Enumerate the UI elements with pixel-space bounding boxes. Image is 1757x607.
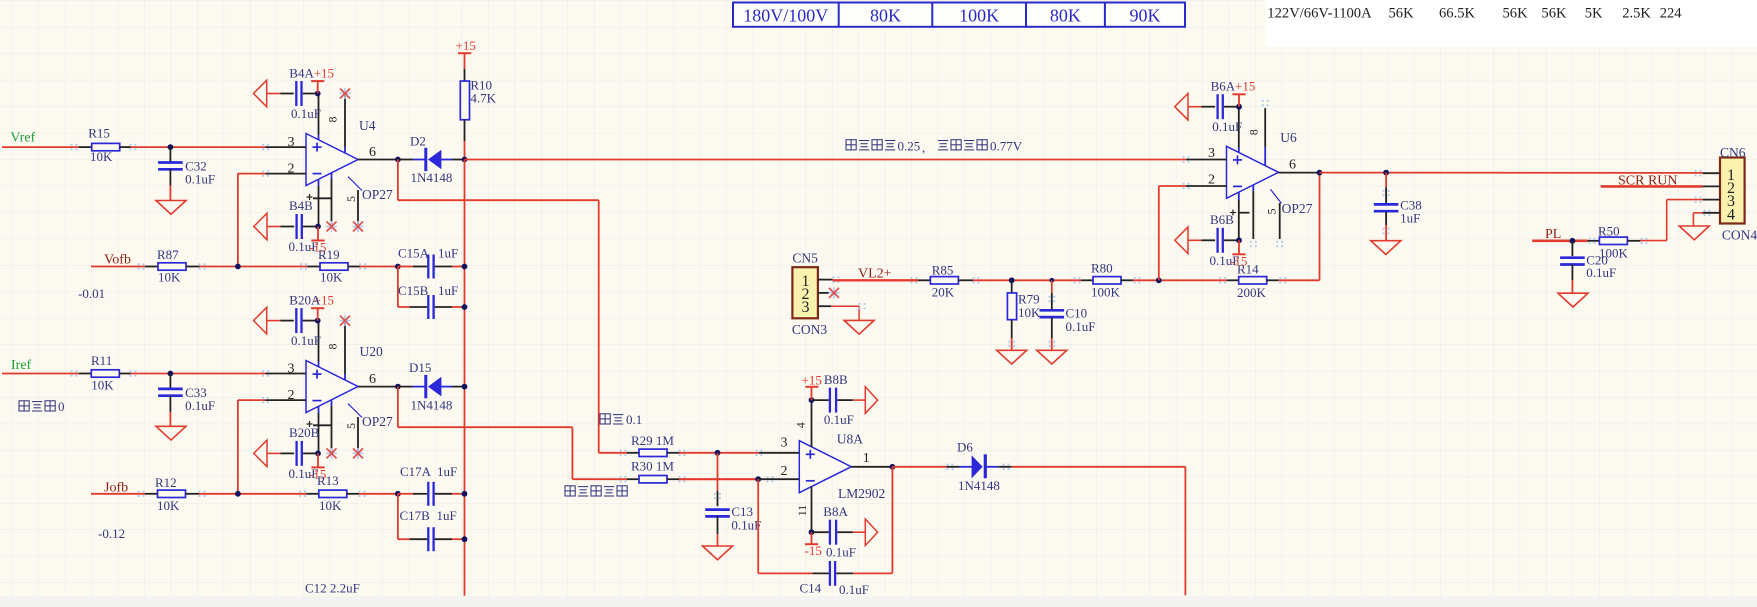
- svg-text:B8A: B8A: [823, 504, 848, 519]
- svg-text:10K: 10K: [319, 498, 342, 513]
- op-amp U8A: [799, 441, 851, 493]
- svg-text:1N4148: 1N4148: [411, 398, 453, 413]
- op-amp U6: [1227, 146, 1279, 198]
- svg-text:0.1uF: 0.1uF: [731, 518, 761, 533]
- svg-text:2: 2: [288, 162, 295, 177]
- white panel top-right: [1266, 0, 1757, 47]
- svg-text:1N4148: 1N4148: [411, 170, 453, 185]
- svg-text:C14: C14: [800, 581, 822, 596]
- svg-text:CN5: CN5: [792, 251, 818, 266]
- ground C38: [1371, 241, 1401, 255]
- svg-text:0.1: 0.1: [626, 412, 642, 427]
- wire U20out to R30 net: [397, 387, 399, 428]
- svg-text:B4A: B4A: [289, 66, 314, 81]
- resistor R80: [1081, 279, 1093, 281]
- wire R19 to C15: [360, 266, 398, 268]
- wire Vofb: [91, 266, 145, 268]
- svg-text:0.1uF: 0.1uF: [826, 545, 856, 560]
- svg-text:0: 0: [58, 399, 65, 414]
- svg-text:80K: 80K: [870, 6, 901, 26]
- capacitor C17A: [398, 493, 413, 495]
- wire U8A out right: [892, 466, 946, 468]
- svg-text:200K: 200K: [1237, 285, 1267, 300]
- svg-text:5: 5: [1265, 209, 1279, 215]
- svg-text:56K: 56K: [1503, 5, 1529, 21]
- svg-text:180V/100V: 180V/100V: [743, 6, 828, 26]
- wire R14 to U6 out: [1279, 279, 1320, 281]
- capacitor B6B: [1175, 227, 1188, 254]
- ground C20: [1558, 293, 1588, 307]
- svg-text:80K: 80K: [1050, 6, 1081, 26]
- U8A pin11 stub: [811, 487, 813, 533]
- svg-text:C15A: C15A: [398, 246, 430, 261]
- resistor R79: [1011, 280, 1013, 293]
- svg-text:1N4148: 1N4148: [958, 478, 1000, 493]
- svg-text:0.1uF: 0.1uF: [185, 172, 215, 187]
- resistor R14: [1227, 279, 1239, 281]
- svg-text:10K: 10K: [320, 270, 343, 285]
- resistor R15: [79, 146, 92, 148]
- U20 pin8 stub: [344, 321, 346, 374]
- CN5 pin3 stub: [818, 305, 831, 307]
- capacitor B20B: [254, 440, 267, 467]
- svg-text:D6: D6: [957, 440, 973, 455]
- svg-text:4.7K: 4.7K: [470, 91, 496, 106]
- wire R87 to R19: [199, 266, 307, 268]
- svg-text:8: 8: [326, 117, 340, 123]
- op-amp U4: [306, 134, 358, 186]
- feedback C14 loop: [891, 467, 893, 574]
- svg-text:B6B: B6B: [1210, 212, 1234, 227]
- capacitor C38: [1385, 173, 1387, 188]
- capacitor B6A: [1175, 93, 1188, 120]
- wire SCR RUN: [1601, 185, 1703, 188]
- svg-text:10K: 10K: [91, 378, 114, 393]
- svg-text:-15: -15: [805, 543, 822, 558]
- svg-text:0.1uF: 0.1uF: [824, 412, 854, 427]
- svg-text:5K: 5K: [1585, 5, 1603, 21]
- svg-text:U20: U20: [360, 344, 383, 359]
- resistor R19: [308, 266, 321, 268]
- svg-text:OP27: OP27: [362, 414, 393, 429]
- no-connect U20 top: [340, 315, 351, 326]
- CN5 pin1 stub: [818, 279, 833, 281]
- resistor R12: [145, 493, 158, 495]
- wire D6 net vertical: [1184, 467, 1186, 595]
- svg-text:0.1uF: 0.1uF: [1586, 265, 1616, 280]
- wire Jofb: [91, 493, 145, 495]
- svg-text:OP27: OP27: [1282, 201, 1313, 216]
- annotation liangduan01: [600, 414, 623, 424]
- resistor R11: [79, 373, 92, 375]
- svg-text:R87: R87: [157, 247, 179, 262]
- svg-text:R50: R50: [1598, 224, 1620, 239]
- svg-text:5: 5: [344, 196, 358, 202]
- U6 pin8 stub: [1264, 108, 1266, 147]
- svg-text:10K: 10K: [90, 149, 113, 164]
- capacitor B4A: [254, 80, 267, 107]
- svg-text:10K: 10K: [158, 270, 181, 285]
- svg-text:0.77V: 0.77V: [990, 139, 1023, 154]
- resistor R29: [599, 452, 627, 454]
- svg-text:3: 3: [802, 299, 810, 316]
- svg-text:+15: +15: [1235, 79, 1255, 94]
- svg-text:1uF: 1uF: [437, 508, 457, 523]
- CN5 pin2 stub: [818, 292, 829, 294]
- svg-text:5: 5: [344, 423, 358, 429]
- svg-text:1uF: 1uF: [1400, 211, 1420, 226]
- svg-text:56K: 56K: [1541, 5, 1567, 21]
- wire U4 out: [358, 159, 398, 161]
- wire long row to U6 pin3: [465, 159, 1187, 161]
- svg-text:-0.12: -0.12: [98, 526, 125, 541]
- svg-text:R29 1M: R29 1M: [631, 433, 674, 448]
- annotation liangduanwei0: [19, 401, 55, 411]
- gray strip bottom: [0, 596, 1757, 607]
- svg-text:+15: +15: [456, 38, 476, 53]
- capacitor C10: [1051, 280, 1053, 293]
- wire Iref: [2, 373, 79, 375]
- svg-text:Vref: Vref: [10, 131, 35, 146]
- resistor R87: [145, 266, 158, 268]
- ground C33: [156, 426, 186, 440]
- svg-text:2: 2: [1208, 172, 1215, 187]
- wire R80 to R14: [1133, 279, 1227, 281]
- wire R29 to U8A: [679, 452, 759, 454]
- ground R79: [997, 350, 1027, 364]
- wire U8A out: [851, 466, 892, 468]
- svg-text:0.1uF: 0.1uF: [1212, 119, 1242, 134]
- svg-text:LM2902: LM2902: [838, 486, 885, 501]
- svg-text:B6A: B6A: [1211, 79, 1236, 94]
- svg-text:U8A: U8A: [837, 432, 863, 447]
- wire U6 out long: [1320, 172, 1703, 174]
- svg-text:8: 8: [1247, 129, 1261, 135]
- svg-text:0.25: 0.25: [898, 139, 921, 154]
- svg-text:1uF: 1uF: [437, 464, 457, 479]
- svg-text:2.5K: 2.5K: [1622, 5, 1651, 21]
- svg-text:-15: -15: [1230, 253, 1247, 268]
- wire U20 pin2 loop: [238, 399, 266, 401]
- svg-text:C17A: C17A: [400, 464, 432, 479]
- svg-text:224: 224: [1660, 5, 1683, 21]
- svg-text:8: 8: [326, 344, 340, 350]
- svg-text:6: 6: [1289, 158, 1296, 173]
- resistor R30: [572, 478, 627, 480]
- capacitor B20A: [254, 307, 267, 334]
- diode D15: [398, 386, 413, 388]
- capacitor B8B: [809, 397, 815, 403]
- connector CN6: [1720, 158, 1745, 224]
- svg-text:0.1uF: 0.1uF: [185, 398, 215, 413]
- svg-text:U6: U6: [1280, 130, 1297, 145]
- wire U20 out: [358, 386, 398, 388]
- svg-text:0.1uF: 0.1uF: [291, 106, 321, 121]
- svg-text:R12: R12: [155, 475, 177, 490]
- svg-text:0.1uF: 0.1uF: [1066, 319, 1096, 334]
- svg-text:90K: 90K: [1130, 6, 1161, 26]
- svg-text:100K: 100K: [1091, 285, 1121, 300]
- svg-text:R85: R85: [932, 263, 954, 278]
- U6 bottom pins: [1238, 192, 1240, 200]
- svg-text:10K: 10K: [1018, 305, 1041, 320]
- capacitor B8A: [809, 529, 815, 535]
- ground C32: [156, 201, 186, 215]
- svg-text:3: 3: [288, 135, 295, 150]
- resistor R50: [1588, 240, 1600, 242]
- svg-text:,: ,: [922, 140, 925, 155]
- wire R12 to R13: [199, 493, 307, 495]
- U4 pin8 stub: [344, 94, 346, 148]
- svg-text:B4B: B4B: [289, 198, 313, 213]
- diode D2: [398, 159, 413, 161]
- svg-text:Vofb: Vofb: [104, 253, 131, 268]
- U6 pin7 stub: [1238, 107, 1240, 148]
- svg-text:56K: 56K: [1389, 5, 1415, 21]
- wire R11 to U20: [131, 373, 266, 375]
- svg-text:CN6: CN6: [1720, 145, 1746, 160]
- op-amp U20: [306, 361, 358, 413]
- svg-text:66.5K: 66.5K: [1439, 5, 1476, 21]
- svg-text:11: 11: [795, 505, 809, 517]
- svg-text:1uF: 1uF: [438, 283, 458, 298]
- svg-text:1uF: 1uF: [438, 246, 458, 261]
- ground C13: [703, 546, 733, 560]
- U20 bottom pins: [318, 406, 320, 413]
- svg-text:C17B: C17B: [400, 508, 431, 523]
- svg-text:20K: 20K: [932, 285, 955, 300]
- table ratings: [733, 3, 1185, 27]
- capacitor C17B: [397, 494, 399, 539]
- capacitor C20: [1571, 241, 1573, 256]
- U8A pin4 stub: [811, 400, 813, 447]
- svg-text:U4: U4: [359, 118, 376, 133]
- svg-text:R30 1M: R30 1M: [631, 459, 674, 474]
- node D15 out: [462, 384, 468, 390]
- U4 pin7 stub: [318, 94, 320, 135]
- wire U4 pin2 loop: [238, 173, 266, 175]
- svg-text:1: 1: [863, 451, 870, 466]
- svg-text:+15: +15: [314, 66, 334, 81]
- svg-text:VL2+: VL2+: [858, 266, 892, 281]
- svg-text:3: 3: [288, 362, 295, 377]
- svg-text:R11: R11: [91, 353, 112, 368]
- capacitor C32: [169, 147, 171, 162]
- svg-text:+15: +15: [802, 373, 822, 388]
- capacitor C13: [717, 453, 719, 491]
- resistor R13: [307, 493, 319, 495]
- no-connect U20 bottom: [326, 448, 337, 459]
- ground C10: [1037, 350, 1067, 364]
- wire R30 to U8A: [679, 478, 758, 480]
- U4 bottom pins: [318, 179, 320, 186]
- annotation liangduangaodianping: [565, 486, 627, 496]
- wire U4out to R29 net: [397, 160, 399, 201]
- CN6 pin1 stub: [1703, 172, 1720, 174]
- svg-text:100K: 100K: [959, 6, 999, 26]
- connector CN5: [792, 267, 818, 318]
- diode D6: [947, 466, 960, 468]
- label OP27 U4: [348, 177, 362, 191]
- node main out: [462, 157, 468, 163]
- wire R15 to U4: [131, 146, 266, 148]
- svg-text:R80: R80: [1091, 261, 1113, 276]
- svg-text:0.1uF: 0.1uF: [291, 333, 321, 348]
- wire VL2+: [833, 279, 918, 281]
- svg-text:2: 2: [781, 464, 788, 479]
- svg-text:R19: R19: [318, 247, 340, 262]
- ground CN6 pin4: [1679, 226, 1709, 240]
- no-connect CN5 pin2: [829, 287, 840, 298]
- capacitor C15B: [397, 267, 399, 308]
- CN6 pin3 route: [1703, 199, 1720, 201]
- svg-text:D15: D15: [409, 360, 431, 375]
- svg-text:D2: D2: [410, 134, 426, 149]
- svg-text:6: 6: [369, 372, 376, 387]
- capacitor C15A: [398, 266, 413, 268]
- svg-text:4: 4: [1727, 206, 1735, 223]
- svg-text:C12 2.2uF: C12 2.2uF: [305, 581, 360, 596]
- wire U6 pin2 net: [1158, 186, 1160, 280]
- svg-text:3: 3: [1208, 146, 1215, 161]
- label OP27 U20: [348, 404, 362, 418]
- svg-text:R13: R13: [317, 473, 339, 488]
- resistor R85: [918, 279, 930, 281]
- svg-text:B20B: B20B: [289, 425, 320, 440]
- svg-text:B8B: B8B: [824, 372, 848, 387]
- wire R85 to R80: [973, 279, 1081, 281]
- annotation current note: [846, 140, 895, 150]
- svg-text:Iref: Iref: [11, 358, 32, 373]
- svg-text:C15B: C15B: [398, 283, 429, 298]
- svg-text:B20A: B20A: [289, 293, 321, 308]
- svg-text:122V/66V-1100A: 122V/66V-1100A: [1267, 5, 1372, 21]
- svg-text:0.1uF: 0.1uF: [839, 582, 869, 597]
- capacitor C33: [169, 374, 171, 389]
- capacitor B4B: [254, 213, 267, 240]
- no-connect U4 top: [340, 88, 351, 99]
- svg-text:-0.01: -0.01: [78, 286, 105, 301]
- svg-text:R15: R15: [88, 126, 110, 141]
- wire R13 to C17: [359, 493, 398, 495]
- U20 pin7 stub: [318, 321, 320, 362]
- svg-text:4: 4: [794, 422, 808, 428]
- wire U6 out: [1279, 172, 1320, 174]
- svg-text:CON3: CON3: [792, 322, 828, 337]
- CN6 pin4 route: [1703, 212, 1720, 214]
- svg-text:OP27: OP27: [362, 187, 393, 202]
- svg-text:6: 6: [369, 145, 376, 160]
- wire net1 vertical: [464, 160, 466, 596]
- no-connect U4 bottom: [326, 221, 337, 232]
- svg-text:CON4: CON4: [1722, 228, 1757, 243]
- label OP27 U6: [1271, 189, 1282, 203]
- ground CN5: [844, 320, 874, 334]
- svg-text:3: 3: [781, 436, 788, 451]
- wire D6 out: [1012, 466, 1186, 468]
- svg-text:2: 2: [288, 388, 295, 403]
- wire Vref: [2, 146, 79, 148]
- svg-text:10K: 10K: [157, 498, 180, 513]
- wire PL: [1532, 240, 1587, 243]
